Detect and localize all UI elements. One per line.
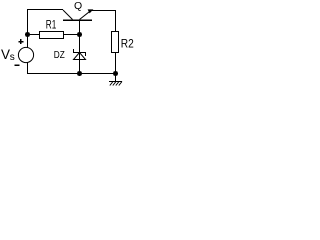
wire Vs to R1 — [28, 34, 40, 36]
node junction dot R2/bottom rail — [113, 71, 118, 76]
zener DZ anode triangle — [74, 53, 86, 60]
wire zener vertical through — [79, 35, 81, 75]
wire emitter to R2 top — [92, 10, 117, 12]
zener DZ cathode tick right (down) — [85, 52, 87, 56]
svg-text:Q: Q — [74, 0, 82, 12]
svg-text:DZ: DZ — [54, 50, 65, 61]
resistor R2 body — [112, 32, 119, 53]
wire R2 top vertical — [115, 11, 117, 33]
transistor Q base bar — [63, 19, 92, 21]
minus sign — [14, 64, 19, 66]
ground hatch 4 — [119, 82, 122, 86]
wire R2 bottom vertical — [115, 53, 117, 75]
plus sign — [18, 41, 23, 43]
node junction dot DZ/bottom rail — [77, 71, 82, 76]
ground bar — [109, 81, 122, 83]
transistor Q base lead down — [79, 20, 81, 35]
node junction dot left (Vs/R1) — [25, 32, 30, 37]
transistor Q emitter arrowhead — [88, 9, 94, 13]
svg-text:V: V — [1, 47, 10, 62]
ground hatch 3 — [116, 82, 119, 86]
ground lead — [115, 74, 117, 82]
zener diode DZ cathode bar — [73, 52, 86, 54]
zener DZ cathode tick left (up) — [73, 49, 75, 53]
svg-text:R1: R1 — [46, 19, 57, 31]
wire top-left vertical (Vs+ to top rail) — [27, 9, 29, 48]
ground hatch 2 — [113, 82, 116, 86]
svg-text:R2: R2 — [121, 37, 134, 51]
svg-text:s: s — [10, 52, 15, 63]
node junction dot base/R1/DZ — [77, 32, 82, 37]
wire Vs bottom vertical — [27, 63, 29, 75]
resistor R1 body — [40, 32, 64, 39]
wire R1 to base node — [64, 34, 80, 36]
wire top rail to collector — [27, 9, 63, 11]
transistor Q collector lead — [63, 10, 73, 20]
voltage source Vs circle — [18, 47, 33, 62]
transistor Q emitter lead — [80, 11, 91, 20]
ground hatch 1 — [110, 82, 113, 86]
wire bottom rail — [27, 73, 118, 75]
